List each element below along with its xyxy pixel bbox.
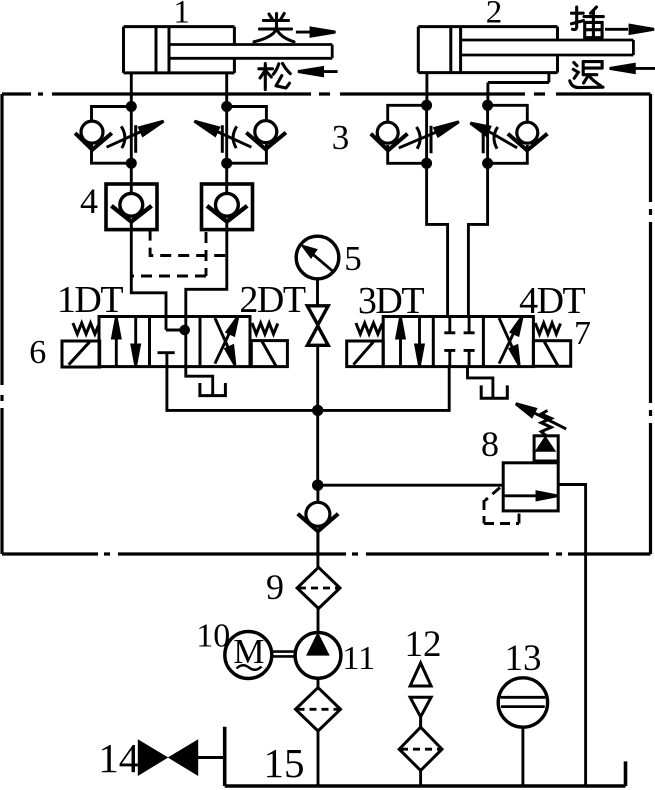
solenoid valve 7 body <box>383 317 533 367</box>
wire suction filter to tank <box>317 731 320 786</box>
tank 15 <box>225 727 626 786</box>
check valve seat <box>75 133 112 150</box>
pump 11 <box>295 633 341 679</box>
wire level gauge to tank <box>521 727 524 786</box>
label arrow release (song) <box>298 68 338 76</box>
wire relief outlet to tank <box>558 485 585 787</box>
cylinder 2 rod <box>461 40 634 55</box>
cylinder 2 barrel <box>418 27 557 73</box>
node relief branch <box>312 480 323 491</box>
gauge shut-off valve (hourglass) <box>307 306 328 346</box>
pilot line right valve (dashed) <box>131 232 206 276</box>
one-way throttle valve B2 (cyl2 rod side, item 3) <box>470 100 547 169</box>
chinese label song (release) <box>259 63 291 89</box>
cylinder 2 piston <box>451 27 461 73</box>
valve6 left solenoid 1DT <box>62 341 100 367</box>
node P junction <box>312 405 323 416</box>
needle <box>312 254 334 272</box>
relief valve 8 poppet triangle <box>536 437 554 450</box>
one-way throttle valve B1 (cyl2 cap side, item 3) <box>371 100 459 169</box>
svg-text:9: 9 <box>266 567 284 607</box>
valve6 right square crossed arrows <box>215 317 238 365</box>
svg-text:4: 4 <box>80 181 98 221</box>
node bottom <box>482 158 493 169</box>
svg-text:14: 14 <box>98 735 139 781</box>
chinese label tui (retract) <box>570 62 603 88</box>
chinese label jia (clamp) <box>254 14 294 42</box>
adjust arrow <box>107 132 141 148</box>
wire filter9 to pump <box>317 609 320 633</box>
node bottom <box>126 158 137 169</box>
bypass loop <box>227 107 267 164</box>
node top <box>221 101 232 112</box>
wire main line <box>130 107 133 164</box>
wire main line <box>225 107 228 164</box>
cylinder 1 barrel <box>124 27 235 73</box>
pilot line left valve (dashed) <box>150 230 227 256</box>
svg-text:8: 8 <box>481 424 499 464</box>
drain valve 14 <box>139 741 225 774</box>
enclosure dash-dot border <box>2 94 651 554</box>
svg-text:1: 1 <box>173 0 190 31</box>
wire cylinder2 rod port <box>488 73 549 106</box>
relief valve 8 internal arrow <box>504 492 557 500</box>
check valve seat <box>371 134 408 151</box>
relief valve 8 body <box>503 436 558 511</box>
svg-text:2: 2 <box>486 0 503 31</box>
adjust arrow <box>399 132 437 148</box>
valve6 left square arrows <box>113 317 140 367</box>
wire through <box>225 163 228 229</box>
svg-text:10: 10 <box>196 618 230 655</box>
seat <box>111 206 151 222</box>
relief valve 8 spring <box>541 411 551 436</box>
one-way throttle valve A2 (cyl1 rod side) <box>194 101 286 169</box>
svg-text:15: 15 <box>264 740 305 786</box>
svg-text:12: 12 <box>405 624 442 665</box>
valve7 centre blocked ports (O type) <box>444 317 474 367</box>
wire trunk through border to filter9 <box>316 531 319 567</box>
filter 9 <box>297 567 340 608</box>
wire lock left out to valve6 A <box>131 230 166 330</box>
valve6 centre: P blocked bar <box>158 353 175 367</box>
check valve seat <box>508 134 548 151</box>
throttle arcs <box>417 126 432 154</box>
coupling motor-pump <box>272 652 296 657</box>
wire through <box>130 163 133 229</box>
valve6 right solenoid 2DT <box>251 341 287 367</box>
wire breather to tank <box>419 771 422 787</box>
wire cylinder1 cap port <box>130 73 133 107</box>
check valve circle <box>81 121 103 143</box>
motor tilde <box>237 665 262 670</box>
svg-text:13: 13 <box>505 638 542 679</box>
wire valve6 P to trunk <box>167 367 318 411</box>
pilot check valve 4 left box <box>106 163 157 229</box>
throttle arcs <box>222 125 237 153</box>
level gauge 13 <box>498 678 547 727</box>
electric motor 10 <box>225 632 272 679</box>
wire main line <box>425 105 428 163</box>
wire B2 to valve7 B <box>468 163 487 316</box>
valve7 drain tank symbol <box>481 385 507 398</box>
svg-text:1DT: 1DT <box>57 279 123 321</box>
throttle arcs <box>483 126 498 154</box>
wire gauge to shutoff <box>316 279 319 306</box>
valve6 drain tank symbol <box>200 383 226 396</box>
svg-text:5: 5 <box>344 239 362 278</box>
node top <box>421 100 432 111</box>
relief valve 8 adjust arrow <box>516 404 566 429</box>
svg-text:3DT: 3DT <box>358 280 424 322</box>
wire pump to suction filter <box>317 678 320 687</box>
seat <box>207 206 247 222</box>
valve6 centre: A-B joined to T <box>166 325 190 367</box>
air breather 12 <box>399 663 442 771</box>
valve7 right spring <box>535 323 560 334</box>
check valve circle <box>255 121 277 143</box>
solenoid valve 6 body <box>99 317 250 367</box>
cylinder 1 piston <box>156 27 169 73</box>
bypass loop <box>488 105 528 163</box>
suction filter <box>296 688 341 731</box>
valve7 left solenoid 3DT <box>347 341 384 367</box>
wire lock right out to valve6 B <box>186 230 227 330</box>
wire main line <box>486 105 489 163</box>
label arrow retract (tui) <box>610 64 655 72</box>
wire B1 to valve7 A <box>427 163 448 316</box>
valve7 right square crossed arrows <box>499 317 522 365</box>
valve7 left spring <box>356 323 382 334</box>
wire valve7 P to trunk <box>318 367 450 411</box>
node top <box>126 101 137 112</box>
label arrow insert (cha) <box>605 25 654 33</box>
valve7 right solenoid 4DT <box>533 341 570 367</box>
adjust arrow <box>488 131 517 148</box>
label arrow clamp (jia) <box>296 28 336 36</box>
wire shutoff to trunk <box>316 345 319 410</box>
valve6 left spring <box>73 323 99 334</box>
svg-text:M: M <box>233 632 264 671</box>
check valve on trunk <box>298 485 339 554</box>
wire cylinder1 rod port <box>225 73 228 107</box>
cylinder 1 rod <box>169 45 332 59</box>
node bottom <box>421 158 432 169</box>
check valve seat <box>246 133 286 150</box>
one-way throttle valve A1 (cyl1 cap side) <box>75 101 164 169</box>
valve7 left square arrows <box>397 317 424 367</box>
adjust arrow <box>217 132 251 148</box>
check valve circle <box>517 122 538 143</box>
wire valve6 T to drain <box>186 367 213 395</box>
pilot check valve 4 right box <box>202 163 253 229</box>
node bottom <box>221 158 232 169</box>
bypass loop <box>92 107 132 164</box>
wire valve7 T to drain <box>468 367 493 398</box>
svg-text:4DT: 4DT <box>519 280 585 322</box>
svg-text:11: 11 <box>342 640 375 677</box>
wire trunk P down <box>316 410 319 485</box>
throttle arcs <box>121 125 136 153</box>
bypass loop <box>388 105 427 163</box>
valve6 right spring <box>252 323 278 334</box>
svg-text:2DT: 2DT <box>239 279 305 321</box>
relief valve 8 pilot dashed <box>484 488 519 524</box>
node top <box>482 100 493 111</box>
pressure gauge 5 <box>296 236 339 279</box>
wire branch to relief valve <box>318 484 504 487</box>
svg-text:6: 6 <box>29 334 46 371</box>
check circle <box>120 193 143 216</box>
wire cylinder2 cap port <box>425 73 428 106</box>
svg-text:3: 3 <box>332 118 350 157</box>
check valve circle <box>377 122 398 143</box>
chinese label cha (insert) <box>572 7 604 38</box>
check circle <box>216 193 239 216</box>
